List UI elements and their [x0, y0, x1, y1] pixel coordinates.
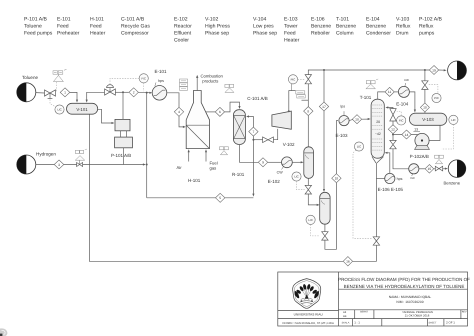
svg-text:13: 13 — [414, 127, 418, 131]
controller LIC V-104 — [306, 215, 315, 224]
equipment label T-101 — [336, 17, 356, 37]
svg-text:High Press: High Press — [205, 24, 230, 30]
label Air — [177, 165, 183, 170]
node stream 4 — [174, 107, 183, 116]
controller LIC T-101 — [354, 142, 363, 151]
equipment label E-103 — [284, 17, 300, 44]
wire combustion stack arrow — [196, 75, 198, 91]
node stream 16 — [343, 257, 352, 266]
node stream 14 — [402, 130, 411, 139]
svg-text:PROCESS FLOW DIAGRAM (PFD) FOR: PROCESS FLOW DIAGRAM (PFD) FOR THE PRODU… — [338, 277, 470, 282]
node stream 6 — [215, 107, 224, 116]
equipment label P-102 — [419, 17, 443, 37]
wire toluene feed — [36, 92, 45, 94]
label lps E-103 — [336, 104, 349, 138]
wire to benzene product — [443, 168, 448, 170]
wire V-101 outlet to P-101 — [98, 109, 115, 124]
wire R-101 outlet — [240, 145, 259, 163]
label P-101 A/B — [111, 153, 131, 158]
svg-text:hps: hps — [397, 177, 403, 181]
title block divider logo column — [278, 272, 339, 326]
valve V-102 overhead — [305, 75, 311, 84]
svg-text:LIC: LIC — [57, 108, 61, 112]
equipment label C-101 — [121, 17, 150, 37]
wire stream9 to E-102 — [268, 161, 282, 163]
controller LIC V-103 — [449, 115, 458, 124]
furnace H-101 — [186, 91, 209, 149]
title block texts — [283, 277, 471, 325]
compressor C-101 — [272, 111, 291, 129]
column T-101 bottom cone — [372, 157, 384, 163]
node stream 12 — [388, 125, 397, 134]
svg-text:cw: cw — [404, 78, 409, 82]
svg-text:Preheater: Preheater — [57, 31, 80, 37]
controller LIC V-102 — [292, 172, 301, 181]
wire T-101 overhead — [378, 92, 385, 99]
svg-text:6: 6 — [219, 110, 221, 114]
reactor R-101 — [233, 110, 245, 145]
svg-text:Low pres: Low pres — [253, 24, 274, 30]
svg-text:11: 11 — [388, 90, 392, 94]
equipment label V-104 — [253, 17, 277, 37]
svg-text:E-106: E-106 — [311, 17, 325, 23]
controller FIC feed — [139, 74, 148, 83]
wire mixed feed line — [147, 197, 254, 199]
drum V-103 — [409, 113, 446, 125]
equipment label E-102 — [174, 17, 192, 44]
wire feed riser — [146, 93, 148, 198]
wire stream19 to fuel product — [439, 69, 447, 71]
controller PIC C-101 — [288, 75, 297, 84]
node stream 11 — [385, 87, 394, 96]
svg-text:P-102A/B: P-102A/B — [410, 154, 429, 159]
valve V-102 bottoms — [305, 185, 311, 194]
svg-text:UNIVERSITAS RIAU: UNIVERSITAS RIAU — [294, 312, 324, 316]
svg-text:LIC: LIC — [294, 175, 298, 179]
svg-text:2 OF 1: 2 OF 1 — [446, 320, 455, 324]
wire E-103 to stream10 — [349, 120, 352, 121]
node stream 9 — [258, 158, 267, 167]
svg-text:hps: hps — [158, 79, 164, 83]
instrument signal LIC V-104 — [311, 224, 320, 236]
equipment label H-101 — [90, 17, 106, 37]
svg-text:V-103: V-103 — [396, 17, 409, 23]
svg-text:4: 4 — [178, 110, 180, 114]
wire E-105 to stream15 — [419, 168, 425, 170]
label C-101 A/B — [247, 96, 268, 101]
vessel V-102 — [304, 147, 314, 179]
svg-text:Heater: Heater — [90, 31, 106, 37]
svg-text:Phase sep: Phase sep — [253, 31, 277, 37]
label V-102 — [283, 142, 295, 147]
svg-text:~42: ~42 — [375, 132, 381, 136]
instrument cluster above stream6 — [225, 84, 234, 92]
svg-text:LIC: LIC — [308, 218, 312, 222]
wire P-101 discharge riser — [122, 92, 124, 119]
svg-text:Benzene: Benzene — [336, 24, 356, 30]
wire valve to junction — [115, 91, 128, 93]
wire T-101 bottoms line — [375, 163, 377, 237]
node stream 15 — [425, 165, 434, 174]
svg-text:14: 14 — [405, 133, 409, 137]
label Fuel gas — [210, 160, 218, 170]
svg-text:Benzene: Benzene — [311, 24, 331, 30]
svg-text:8: 8 — [307, 109, 309, 113]
wire stream2 to E-101 — [138, 92, 152, 94]
svg-text:LIC: LIC — [451, 118, 455, 122]
svg-text:PIC: PIC — [291, 78, 296, 82]
svg-text:C-101 A/B: C-101 A/B — [247, 96, 268, 101]
svg-text:products: products — [202, 79, 218, 84]
svg-text:H-101: H-101 — [188, 178, 201, 183]
wire stream8 to fuel valve — [307, 84, 309, 107]
instrument boxes near stream8 — [296, 91, 305, 98]
equipment label V-103 — [396, 17, 411, 37]
wire V-103 vent riser — [424, 112, 426, 113]
svg-text:E-103: E-103 — [336, 133, 349, 138]
svg-text:E-102: E-102 — [174, 17, 188, 23]
instrument cluster above T-101 — [366, 79, 378, 89]
svg-text:7: 7 — [252, 130, 254, 134]
svg-text:SHEET: SHEET — [429, 321, 438, 324]
svg-text:Benzene: Benzene — [444, 180, 461, 185]
valve benzene product — [434, 166, 443, 171]
svg-text:E-102: E-102 — [268, 179, 281, 184]
reboiler E-106 — [385, 173, 395, 183]
svg-text:H-101: H-101 — [90, 17, 104, 23]
wire V-102 liquid to V-104 — [308, 194, 319, 206]
wire distillate down — [392, 135, 394, 141]
svg-text:P-101 A/B: P-101 A/B — [24, 17, 48, 23]
svg-text:1 : 1: 1 : 1 — [354, 320, 360, 324]
svg-text:A4: A4 — [343, 314, 347, 318]
node stream 2 — [129, 88, 138, 97]
svg-text:21 OKTOBER 2018: 21 OKTOBER 2018 — [405, 314, 430, 318]
wire stream11 to E-104 — [394, 91, 398, 93]
wire hydrogen to stream3 — [36, 164, 54, 166]
instrument PSV cluster above toluene valve — [53, 69, 67, 81]
svg-text:FIC: FIC — [399, 119, 404, 123]
svg-text:Toluene: Toluene — [24, 24, 42, 30]
svg-text:T-101: T-101 — [360, 95, 372, 100]
valve T-101 bottoms — [373, 237, 379, 245]
wire air inlet — [188, 149, 190, 161]
svg-text:2: 2 — [133, 91, 135, 95]
valve reflux — [390, 109, 396, 121]
wire pump recycle into V-101 — [86, 92, 105, 102]
svg-text:PIC: PIC — [434, 96, 439, 100]
svg-text:P-102 A/B: P-102 A/B — [419, 17, 443, 23]
heat exchanger E-101 — [152, 86, 167, 101]
svg-text:Heater: Heater — [284, 38, 300, 44]
controller PIC V-103 — [432, 93, 441, 102]
title block row3 cell dividers — [355, 310, 461, 319]
valve C-101 bypass — [253, 129, 277, 143]
controller FIC reflux — [397, 116, 406, 125]
instrument signal PIC to valve — [298, 78, 305, 80]
equipment label E-106 — [311, 17, 331, 37]
wire C-101 suction — [288, 84, 309, 112]
label E-106 E-105 — [378, 187, 404, 192]
svg-text:R-101: R-101 — [232, 172, 245, 177]
title block right dividers — [339, 289, 468, 318]
node stream 10 vent — [420, 103, 429, 112]
label P-102A/B — [410, 154, 429, 159]
wire recycle gas to feed line — [252, 136, 254, 197]
wire V-103 outlet to P-102 — [429, 125, 440, 140]
svg-text:Reboiler: Reboiler — [311, 31, 330, 37]
condenser E-104 — [398, 83, 409, 97]
svg-text:Reflux: Reflux — [419, 24, 434, 30]
svg-text:Reflux: Reflux — [396, 24, 411, 30]
controller LIC V-101 — [55, 105, 64, 114]
svg-text:SKALA: SKALA — [342, 321, 350, 324]
label Benzene — [444, 180, 461, 185]
instrument signal PIC vent valve — [429, 85, 438, 94]
label stream 13 tag — [413, 127, 420, 131]
svg-text:3: 3 — [58, 163, 60, 167]
svg-text:BENZENE VIA THE HYDRODEALKYLAT: BENZENE VIA THE HYDRODEALKYLATION OF TOL… — [344, 284, 465, 289]
svg-text:E-104: E-104 — [366, 17, 380, 23]
label CW E-102 — [268, 170, 283, 184]
svg-text:9: 9 — [262, 161, 264, 165]
svg-text:10: 10 — [423, 106, 427, 110]
label T-101 — [360, 95, 372, 100]
svg-text:20: 20 — [376, 120, 380, 124]
svg-text:NIM : 1607036209: NIM : 1607036209 — [396, 300, 423, 304]
valve V-104 bottoms — [322, 232, 328, 240]
svg-text:V-103: V-103 — [422, 117, 434, 122]
node stream 5 — [216, 193, 225, 202]
stream input Toluene — [17, 75, 39, 102]
svg-text:Reactor: Reactor — [174, 24, 192, 30]
svg-text:CW: CW — [277, 170, 284, 174]
wire stream18 riser to E-103 — [336, 121, 338, 174]
svg-text:V-102: V-102 — [283, 142, 295, 147]
wire V-104 liquid to E-103 — [325, 183, 337, 249]
pump P-101 B — [115, 131, 133, 148]
node stream 19 — [429, 66, 438, 75]
node stream 18 — [332, 174, 341, 183]
wire hydrogen line — [64, 163, 146, 165]
svg-text:Air: Air — [177, 165, 183, 170]
university logo crest — [293, 279, 321, 309]
svg-text:FIC: FIC — [141, 77, 146, 81]
instrument signal LIC T-101 to bottoms valve — [353, 150, 372, 238]
label combustion products — [201, 74, 224, 84]
svg-text:12: 12 — [391, 128, 395, 132]
node stream 8 — [304, 107, 313, 116]
label hps E-106 — [397, 177, 403, 181]
stream output fuel gas — [448, 61, 467, 80]
svg-text:T-101: T-101 — [336, 17, 349, 23]
svg-text:Drum: Drum — [396, 31, 408, 37]
wire stream1 to V-101 — [70, 92, 78, 102]
instrument cluster hydrogen valve — [75, 149, 87, 160]
svg-text:15: 15 — [428, 167, 432, 171]
wire stream17 to V-104 — [323, 111, 325, 192]
wire C-101 discharge — [246, 115, 253, 127]
svg-text:19: 19 — [432, 68, 436, 72]
svg-text:BERAT: BERAT — [360, 311, 368, 314]
wire E-101 to stream4 — [167, 93, 179, 109]
svg-text:cw: cw — [410, 176, 415, 180]
valve recycle control valve — [105, 85, 116, 95]
valve toluene feed control valve — [45, 90, 56, 99]
svg-text:Benzene: Benzene — [366, 24, 386, 30]
wire V-104 bottom outlet — [324, 224, 326, 232]
instrument signal FIC feed — [110, 78, 144, 91]
svg-text:Cooler: Cooler — [174, 38, 189, 44]
svg-text:10: 10 — [355, 118, 359, 122]
wire vent to valve — [424, 89, 426, 103]
wire toluene recycle — [89, 114, 376, 261]
svg-text:E-101: E-101 — [155, 69, 168, 74]
label E-101 hps — [155, 69, 168, 86]
svg-text:NAMA : MUHAMMAD IQBAL: NAMA : MUHAMMAD IQBAL — [389, 295, 432, 299]
heat exchanger E-102 — [282, 157, 293, 170]
svg-text:Hydrogen: Hydrogen — [36, 152, 56, 157]
svg-text:LIC: LIC — [357, 145, 361, 149]
stream input Hydrogen — [17, 152, 57, 175]
vessel V-101 — [67, 103, 98, 114]
pump P-102 — [415, 133, 430, 149]
instrument signal FIC reflux valve — [397, 112, 401, 116]
wire P-102 discharge header — [392, 134, 418, 136]
svg-text:lps: lps — [341, 104, 346, 108]
wire H-101 outlet — [206, 111, 216, 113]
svg-text:Tower: Tower — [284, 24, 298, 30]
instrument signal LIC V-103 — [442, 124, 454, 149]
label H-101 — [188, 178, 201, 183]
instrument cluster benzene valve — [435, 155, 444, 164]
svg-text:P-101 A/B: P-101 A/B — [111, 153, 131, 158]
wire reboiler feed — [376, 178, 384, 180]
wire reboiler return — [385, 152, 390, 174]
svg-text:C-101 A/B: C-101 A/B — [121, 17, 145, 23]
wire reflux into column — [385, 106, 393, 108]
wire distillate to E-105 — [393, 149, 409, 169]
label cw E-105 — [410, 176, 415, 180]
cooler E-105 — [409, 164, 419, 176]
svg-text:Column: Column — [336, 31, 354, 37]
heat exchanger E-103 — [339, 111, 349, 126]
column T-101 — [371, 99, 384, 158]
svg-text:Feed: Feed — [284, 31, 296, 37]
svg-text:E-106 E-105: E-106 E-105 — [378, 187, 404, 192]
pump P-101 A — [115, 119, 130, 130]
title block row4 cell dividers — [353, 319, 444, 326]
wire fuel gas header — [308, 69, 429, 75]
wire E-104 to V-103 — [409, 92, 416, 113]
title block frame — [278, 272, 468, 326]
wire stream4 into H-101 — [179, 116, 186, 128]
node stream 1 — [60, 88, 70, 97]
svg-text:REV: REV — [462, 311, 467, 314]
node stream 7 — [249, 127, 258, 136]
wire E-102 to V-102 — [292, 161, 303, 163]
instrument signal LIC V-102 — [297, 181, 305, 190]
svg-text:E-103: E-103 — [284, 17, 298, 23]
svg-text:16: 16 — [346, 260, 350, 264]
instrument signal toluene valve — [50, 82, 57, 106]
wire vent valve to header — [424, 70, 426, 81]
node stream 10 — [352, 115, 361, 124]
svg-text:Feed: Feed — [90, 24, 102, 30]
svg-text:V-101: V-101 — [76, 107, 88, 112]
label cw E-104 — [396, 78, 409, 106]
svg-text:Condenser: Condenser — [366, 31, 391, 37]
svg-text:E-101: E-101 — [57, 17, 71, 23]
svg-text:V-104: V-104 — [253, 17, 266, 23]
svg-text:E-104: E-104 — [396, 101, 409, 106]
svg-text:Feed: Feed — [57, 24, 69, 30]
valve distillate — [390, 140, 396, 148]
svg-text:Toluene: Toluene — [22, 75, 39, 80]
svg-text:Effluent: Effluent — [174, 31, 192, 37]
svg-text:17: 17 — [322, 105, 326, 109]
label R-101 — [232, 172, 245, 177]
node stream 3 — [54, 160, 64, 169]
svg-text:Feed pumps: Feed pumps — [24, 31, 53, 37]
equipment label E-104 — [366, 17, 391, 37]
svg-text:V-102: V-102 — [205, 17, 218, 23]
instrument TI boxes near E-101 — [180, 79, 188, 90]
svg-text:1: 1 — [64, 91, 66, 95]
wire P-101 discharge down — [123, 148, 125, 165]
svg-text:5: 5 — [219, 196, 221, 200]
svg-text:DOSEN : IVAN RONALDO, ST.,MT.,: DOSEN : IVAN RONALDO, ST.,MT.,C.EIA — [283, 322, 334, 325]
svg-text:pumps: pumps — [419, 31, 435, 37]
wire stream10 to T-101 — [362, 118, 371, 120]
wire reflux riser — [392, 121, 394, 125]
valve V-103 vent — [422, 81, 428, 90]
svg-text:18: 18 — [335, 177, 339, 181]
page corner mark — [0, 328, 7, 336]
instrument cluster fuel valve — [220, 147, 229, 155]
wire fuel gas inlet — [205, 149, 207, 161]
svg-text:Phase sep: Phase sep — [205, 31, 229, 37]
wire stream6 to R-101 — [225, 102, 241, 112]
wire V-102 bottom outlet — [307, 178, 309, 185]
stream output Benzene — [448, 160, 466, 178]
equipment label E-101 — [57, 17, 80, 37]
vessel V-104 — [320, 192, 330, 224]
node stream 17 — [319, 70, 328, 111]
equipment label V-102 — [205, 17, 230, 37]
equipment label P-101 — [24, 17, 53, 37]
svg-text:Compressor: Compressor — [121, 31, 149, 37]
wire V-102 overhead riser — [307, 116, 309, 147]
svg-text:gas: gas — [210, 166, 217, 171]
svg-text:Recycle Gas: Recycle Gas — [121, 24, 150, 30]
valve hydrogen control valve — [77, 160, 83, 166]
